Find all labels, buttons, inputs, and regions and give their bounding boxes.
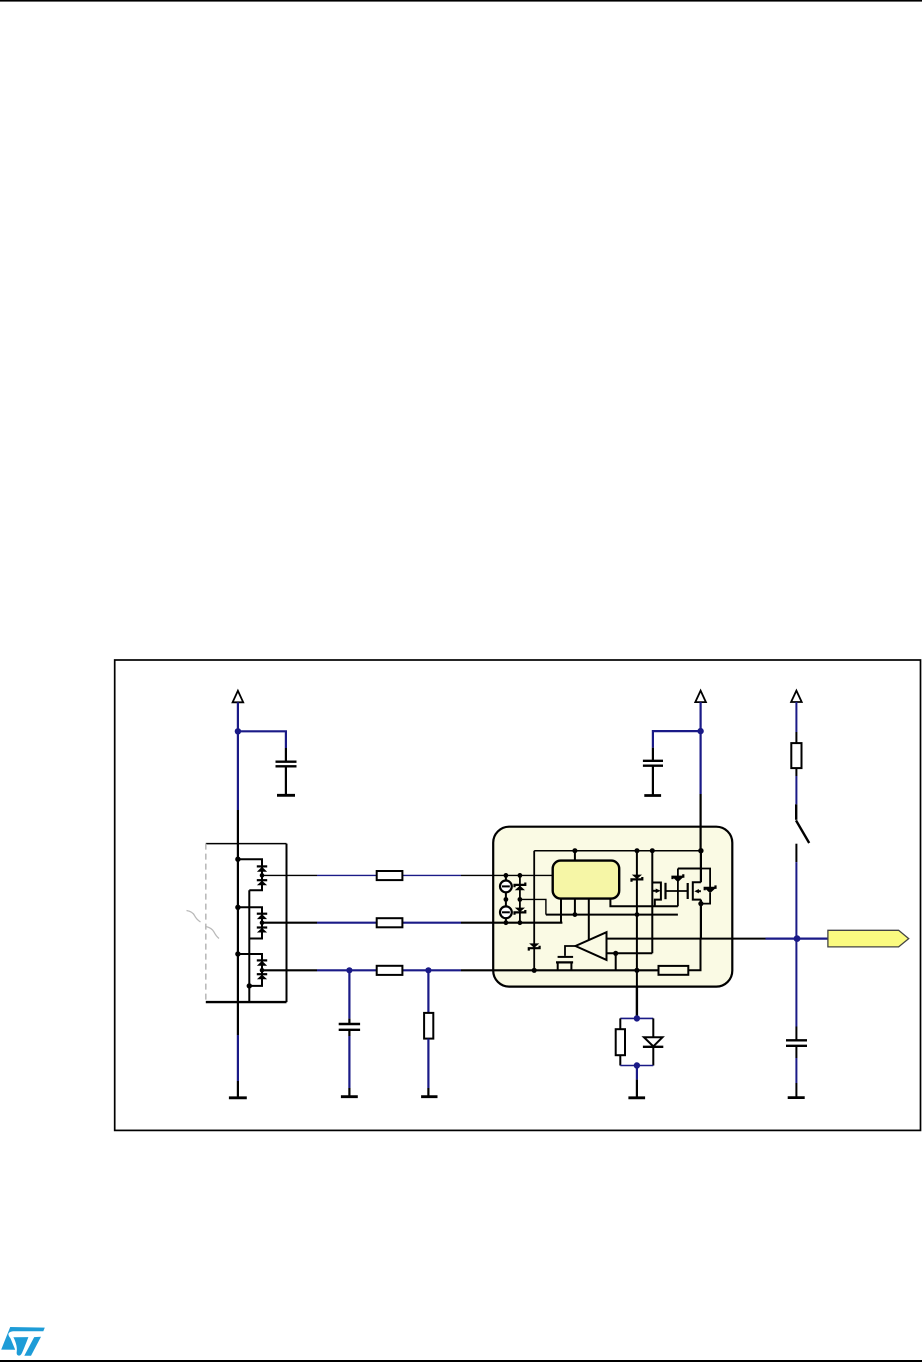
resistor R1 — [377, 871, 403, 880]
diode D5 — [257, 960, 267, 965]
wire pair 2 — [238, 907, 262, 938]
ground (C4) — [788, 1096, 805, 1099]
wire: mid supply vertical — [699, 702, 701, 851]
wire pair 3 — [238, 954, 262, 986]
MOSFET branch vertical — [651, 851, 653, 954]
node clamp top — [634, 1015, 640, 1021]
top link — [678, 868, 701, 870]
wire line 3 — [262, 969, 659, 971]
ground (clamp) — [628, 1096, 645, 1099]
capacitor C3 branch — [339, 970, 360, 1096]
diode D7 — [643, 1018, 663, 1065]
zener Z4 — [673, 869, 684, 907]
node pair2 mid — [260, 920, 265, 925]
MOSFET M2 — [688, 882, 701, 899]
zener Z6 — [632, 875, 643, 882]
wire clamp top bar — [620, 1017, 653, 1019]
resistor R7 — [616, 1018, 625, 1065]
IC block body — [493, 827, 732, 987]
pin: box top stub — [574, 851, 576, 861]
node mid row — [504, 897, 509, 902]
capacitor C4 — [786, 1040, 807, 1046]
diode D3 — [257, 914, 267, 919]
zener Z1 — [515, 875, 526, 922]
node mid supply — [697, 728, 703, 734]
zener Z5 branch — [701, 869, 716, 904]
wire: switch to output node — [795, 844, 797, 939]
node C (tap pair 3) — [235, 951, 240, 956]
resistor R4 branch — [424, 970, 433, 1096]
wire: left supply vertical — [237, 702, 239, 1098]
wire: output node to C4 — [795, 939, 797, 1040]
wire: right branch — [795, 702, 797, 743]
main vertical to output — [700, 851, 702, 883]
wire clamp bottom bar — [620, 1065, 653, 1067]
current source CS1 — [500, 875, 512, 922]
node A (tap pair 1) — [235, 857, 240, 862]
ground (C3) — [341, 1095, 358, 1098]
internal vertical with zener Z3 — [533, 851, 535, 971]
zener Z2 — [515, 908, 526, 915]
figure frame — [115, 660, 921, 1130]
node line1 taps — [504, 873, 509, 878]
ST logo — [1, 1327, 45, 1356]
gate link — [666, 890, 688, 892]
bottom footer rule — [0, 1360, 922, 1362]
control block (inner box) — [553, 861, 620, 899]
resistor R2 — [377, 918, 403, 927]
wire: clamp to ground — [636, 1066, 638, 1098]
resistor R5 — [659, 966, 689, 975]
capacitor C1 — [276, 762, 297, 796]
node line3 crossings — [634, 968, 639, 973]
top header rule — [0, 0, 922, 2]
ground (left supply rail) — [229, 1096, 247, 1099]
wire: mid link to bus — [520, 899, 546, 914]
pin: box bottom 2 — [574, 899, 576, 915]
wire line 2 — [262, 922, 562, 924]
op-amp U1 — [576, 932, 607, 960]
node clamp bottom — [634, 1062, 640, 1068]
node R4 tap — [425, 967, 431, 973]
MOSFET M3 (output follower) — [556, 957, 573, 970]
internal top rail — [534, 850, 701, 852]
wire: to capacitor C1 — [238, 731, 286, 748]
node: left supply junction — [235, 728, 241, 734]
wire pair 1 — [238, 859, 262, 890]
supply arrow 1 — [233, 691, 244, 703]
output line — [607, 938, 766, 940]
node pair-bottom — [247, 983, 252, 988]
supply arrow 3 — [791, 691, 802, 702]
wire: R5 to output — [688, 939, 700, 971]
wire line 1 — [262, 874, 553, 876]
node output — [794, 935, 801, 942]
supply arrow 2 — [695, 691, 706, 703]
zener Z3 — [529, 943, 540, 950]
node pair3 mid — [260, 968, 265, 973]
node B (tap pair 2) — [235, 905, 240, 910]
output connector arrow — [828, 930, 909, 947]
diode D6 — [257, 974, 267, 979]
current source CS2 — [500, 906, 512, 918]
diode D1 — [257, 866, 267, 871]
resistor R6 — [791, 743, 801, 768]
pin: box bottom right — [610, 899, 678, 907]
node pair1 mid — [260, 873, 265, 878]
internal vertical (Z6 branch) — [636, 851, 638, 987]
capacitor C2 — [643, 761, 663, 796]
switch S1 — [796, 804, 809, 843]
resistor R3 — [377, 966, 403, 975]
sensor block outline — [206, 844, 287, 1003]
wire: IC bottom to clamp pair — [636, 987, 638, 1019]
wire: op-amp output to MOSFET gate — [565, 946, 576, 956]
wire: pair-bottom common — [248, 890, 250, 1002]
break squiggle — [187, 911, 220, 939]
ground (below C2) — [644, 794, 661, 797]
node C3 tap — [346, 967, 352, 973]
pin: box bottom 1 — [560, 899, 562, 923]
wire: inverting input — [607, 952, 653, 954]
wire: to capacitor C2 — [653, 731, 701, 748]
diode D2 — [257, 880, 267, 885]
ground (below C1) — [277, 794, 295, 797]
ground (R4) — [421, 1095, 437, 1098]
node line2 taps — [504, 920, 509, 925]
MOSFET M1 — [652, 883, 665, 907]
internal bus — [546, 914, 678, 916]
diode D4 — [257, 928, 267, 933]
pin: box bottom 3 — [588, 899, 590, 940]
